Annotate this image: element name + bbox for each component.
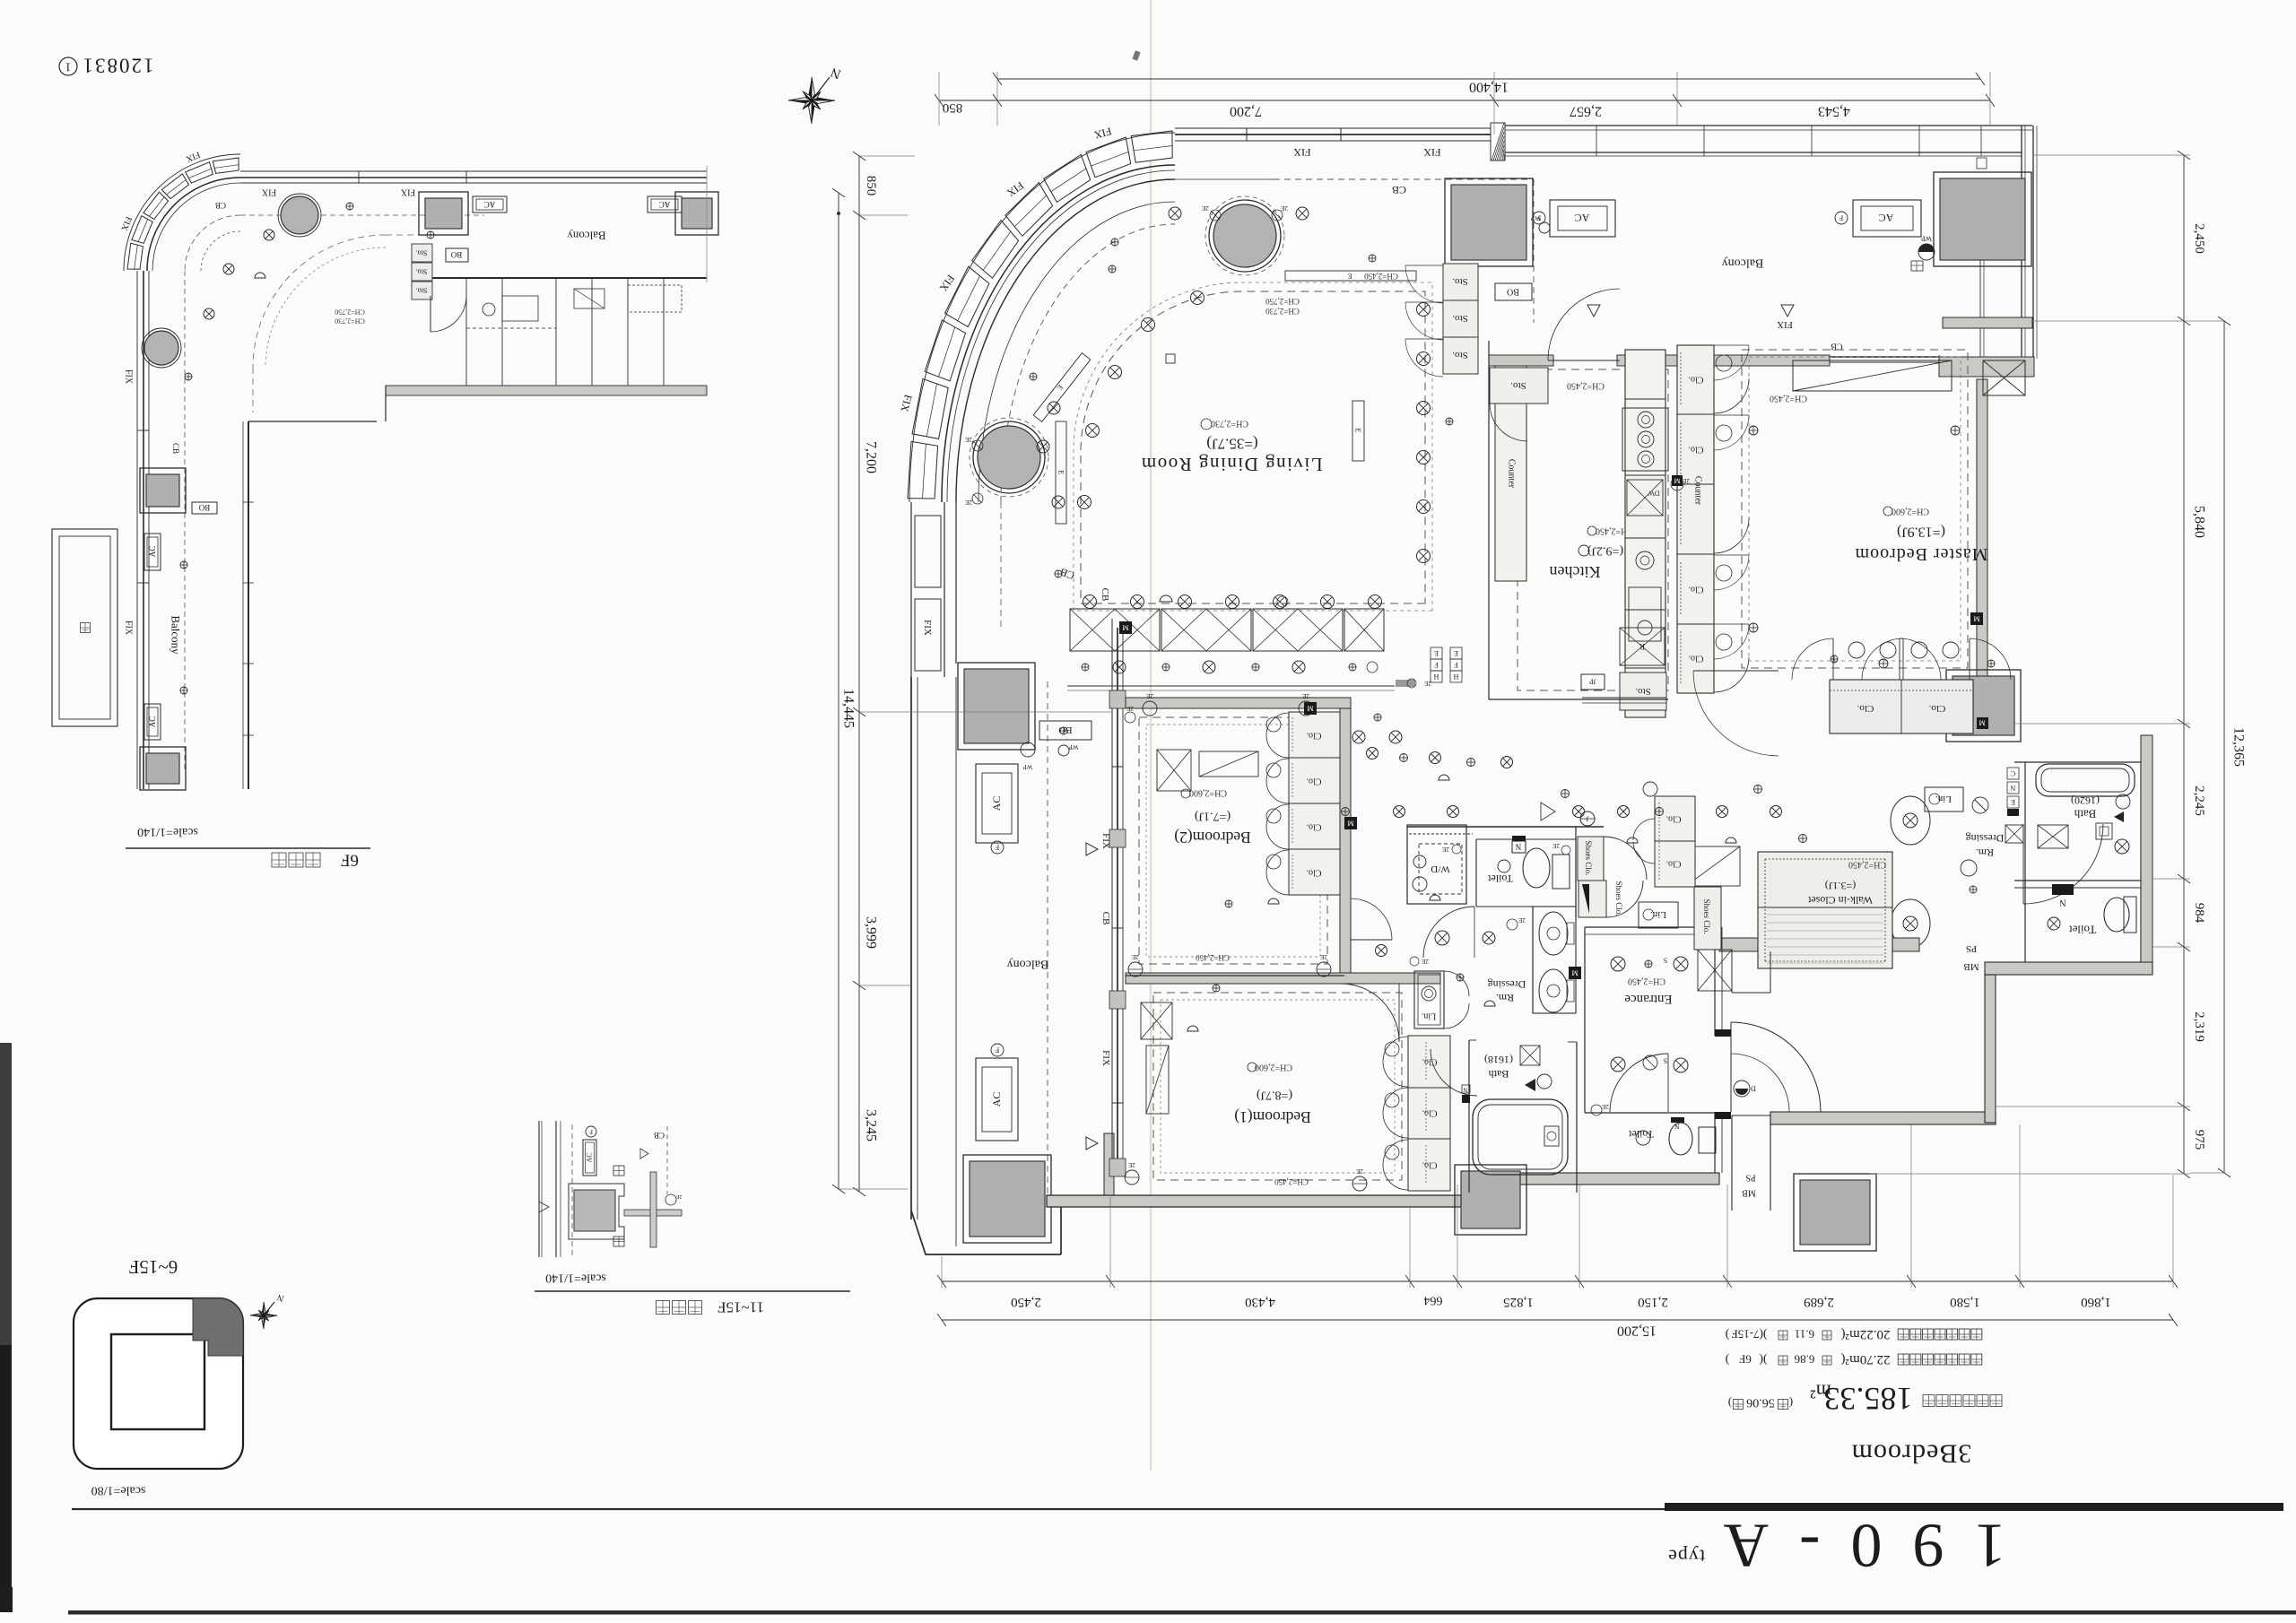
svg-text:scale=1/80: scale=1/80	[91, 1484, 146, 1497]
svg-text:Clo.: Clo.	[1307, 731, 1322, 741]
svg-text:2,689: 2,689	[1804, 1295, 1834, 1309]
svg-text:Bedroom(2): Bedroom(2)	[1174, 829, 1251, 846]
svg-text:F: F	[995, 1046, 999, 1055]
svg-text:J: J	[1586, 815, 1588, 823]
svg-text:AC: AC	[990, 1092, 1003, 1107]
svg-text:scale=1/140: scale=1/140	[137, 825, 198, 838]
svg-text:M: M	[1122, 624, 1128, 632]
svg-text:Sto.: Sto.	[416, 287, 428, 295]
svg-text:Balcony: Balcony	[1722, 256, 1764, 270]
svg-text:2E: 2E	[1683, 477, 1690, 484]
svg-text:Bath: Bath	[1489, 1068, 1509, 1081]
svg-text:BO: BO	[1507, 287, 1519, 297]
svg-text:WP: WP	[1069, 743, 1079, 751]
svg-text:Lin.: Lin.	[1935, 794, 1952, 804]
svg-text:Balcony: Balcony	[567, 230, 606, 243]
svg-text:984: 984	[2192, 903, 2206, 924]
svg-text:2E: 2E	[1126, 705, 1134, 712]
svg-text:AC: AC	[659, 200, 671, 209]
svg-text:20.22m²(: 20.22m²(	[1841, 1327, 1891, 1341]
svg-text:Entrance: Entrance	[1624, 992, 1673, 1006]
svg-text:2E: 2E	[1356, 1167, 1363, 1175]
svg-text:2E: 2E	[675, 1193, 682, 1199]
svg-text:CH=2,450: CH=2,450	[1770, 394, 1807, 404]
svg-text:scale=1/140: scale=1/140	[545, 1271, 606, 1285]
svg-text:m²: m²	[1810, 1381, 1831, 1403]
svg-text:BO: BO	[198, 503, 210, 512]
svg-text:Counter: Counter	[1693, 476, 1703, 506]
svg-text:FIX: FIX	[124, 369, 134, 385]
svg-text:H: H	[1433, 673, 1439, 681]
svg-text:(=35.7J): (=35.7J)	[1206, 436, 1257, 453]
svg-text:Clo.: Clo.	[1689, 654, 1704, 664]
svg-text:3Bedroom: 3Bedroom	[1851, 1439, 1972, 1469]
svg-text:PS: PS	[1745, 1173, 1755, 1183]
svg-text:7-15F: 7-15F	[1731, 1328, 1759, 1341]
svg-text:850: 850	[864, 176, 878, 196]
svg-text:FIX: FIX	[1293, 146, 1311, 159]
svg-text:AC: AC	[586, 1152, 594, 1162]
svg-text:CH=2,450: CH=2,450	[1364, 272, 1398, 281]
svg-text:): )	[1725, 1328, 1729, 1341]
svg-text:Rm.: Rm.	[1496, 992, 1514, 1004]
svg-text:JP: JP	[1589, 678, 1596, 686]
svg-text:CH=2,600: CH=2,600	[1892, 507, 1929, 516]
svg-text:E: E	[1347, 273, 1352, 281]
svg-text:11~15F: 11~15F	[717, 1299, 764, 1316]
svg-text:2E: 2E	[1424, 680, 1431, 687]
svg-text:Clo.: Clo.	[1857, 703, 1874, 714]
svg-text:664: 664	[1424, 1294, 1443, 1307]
svg-text:Sto.: Sto.	[1452, 350, 1468, 360]
svg-text:2E: 2E	[1132, 953, 1139, 960]
svg-text:DW: DW	[1648, 490, 1660, 498]
svg-text:1,860: 1,860	[2081, 1295, 2111, 1309]
svg-text:4,430: 4,430	[1245, 1295, 1275, 1309]
svg-text:2E: 2E	[1602, 1103, 1609, 1110]
svg-text:CB: CB	[171, 443, 180, 454]
svg-text:CH=2,600: CH=2,600	[1255, 1063, 1292, 1072]
svg-text:E: E	[1057, 471, 1065, 475]
svg-text:Sto.: Sto.	[416, 249, 428, 257]
svg-text:Bedroom(1): Bedroom(1)	[1234, 1108, 1311, 1126]
svg-text:Counter: Counter	[1507, 459, 1517, 489]
svg-text:N: N	[2010, 784, 2015, 792]
svg-text:FIX: FIX	[1100, 1050, 1111, 1066]
svg-text:Clo.: Clo.	[1928, 703, 1945, 714]
svg-text:AC: AC	[148, 716, 157, 728]
svg-text:CB: CB	[1100, 588, 1110, 602]
svg-text:CH=2,450: CH=2,450	[1848, 860, 1886, 870]
svg-text:22.70m²(: 22.70m²(	[1841, 1352, 1891, 1367]
svg-text:(=13.9J): (=13.9J)	[1897, 525, 1945, 540]
svg-text:type: type	[1667, 1546, 1705, 1568]
svg-text:CH=2,450: CH=2,450	[1567, 381, 1605, 391]
svg-text:5,840: 5,840	[2192, 506, 2207, 538]
svg-text:190-A: 190-A	[1693, 1511, 2006, 1580]
svg-text:2,319: 2,319	[2192, 1011, 2206, 1042]
svg-text:PS: PS	[1966, 943, 1977, 954]
svg-text:C: C	[2011, 769, 2015, 777]
svg-text:Kitchen: Kitchen	[1550, 563, 1601, 581]
svg-text:2E: 2E	[1281, 204, 1288, 212]
svg-text:4,543: 4,543	[1818, 104, 1850, 119]
svg-text:Toilet: Toilet	[2069, 924, 2097, 937]
svg-text:975: 975	[2192, 1130, 2206, 1150]
svg-text:WP: WP	[1920, 235, 1932, 243]
svg-text:(=7.1J): (=7.1J)	[1195, 810, 1231, 823]
svg-text:Sto.: Sto.	[1452, 276, 1468, 287]
svg-text:AC: AC	[990, 796, 1003, 811]
svg-text:Clo.: Clo.	[1307, 868, 1322, 878]
svg-text:Bath: Bath	[2074, 808, 2096, 821]
svg-text:Dressing: Dressing	[1966, 832, 2005, 845]
svg-text:56.06: 56.06	[1746, 1396, 1775, 1410]
svg-text:Clo.: Clo.	[1666, 814, 1682, 824]
svg-text:2,150: 2,150	[1638, 1295, 1668, 1309]
svg-text:FIX: FIX	[922, 620, 933, 636]
svg-text:(=8.7J): (=8.7J)	[1257, 1089, 1293, 1102]
svg-text:MB: MB	[1963, 961, 1979, 972]
svg-text:2E: 2E	[1320, 953, 1327, 960]
svg-text:7,200: 7,200	[1230, 104, 1262, 119]
svg-text:M: M	[1347, 820, 1353, 828]
svg-text:CH=2,730: CH=2,730	[1211, 419, 1248, 429]
svg-text:N: N	[1463, 1086, 1467, 1093]
svg-text:WP: WP	[1023, 763, 1033, 770]
svg-text:AC: AC	[1879, 212, 1894, 224]
svg-text:2E: 2E	[1202, 204, 1209, 212]
svg-text:F: F	[589, 1128, 593, 1135]
svg-text:(1620): (1620)	[2071, 794, 2100, 807]
svg-text:N: N	[1674, 1123, 1680, 1131]
svg-text:WP: WP	[1531, 214, 1541, 221]
svg-text:CB: CB	[654, 1131, 665, 1140]
svg-text:6.86: 6.86	[1794, 1353, 1814, 1367]
svg-text:E: E	[1434, 649, 1439, 657]
svg-text:2E: 2E	[1442, 846, 1449, 853]
svg-text:CH=2,750: CH=2,750	[335, 308, 365, 317]
svg-text:S: S	[1664, 957, 1667, 965]
svg-text:F: F	[1454, 661, 1458, 669]
svg-text:Lin.: Lin.	[1422, 1011, 1436, 1021]
svg-text:M: M	[1979, 719, 1985, 727]
svg-text:14,445: 14,445	[841, 689, 857, 728]
svg-text:2E: 2E	[1422, 958, 1429, 965]
svg-text:1,580: 1,580	[1950, 1295, 1980, 1309]
svg-text:): )	[1725, 1353, 1729, 1367]
svg-text:BO: BO	[450, 250, 462, 259]
svg-text:AC: AC	[1575, 212, 1590, 224]
svg-text:Shoes Clo.: Shoes Clo.	[1614, 881, 1623, 916]
svg-text:S: S	[1664, 1057, 1667, 1065]
svg-text:CH=2,450: CH=2,450	[1196, 953, 1230, 962]
svg-text:CB: CB	[1392, 184, 1406, 196]
svg-text:2E: 2E	[1552, 842, 1560, 849]
svg-text:R: R	[1639, 642, 1645, 651]
svg-text:7,200: 7,200	[864, 441, 879, 473]
svg-text:CH=2,450: CH=2,450	[1628, 976, 1665, 986]
svg-text:FIX: FIX	[261, 187, 276, 197]
svg-text:2E: 2E	[965, 436, 972, 443]
svg-text:BO: BO	[1058, 725, 1072, 735]
svg-text:F: F	[995, 844, 999, 852]
svg-text:12,365: 12,365	[2231, 727, 2247, 767]
svg-text:2,450: 2,450	[2192, 223, 2206, 254]
svg-text:CB: CB	[1100, 912, 1111, 925]
svg-text:E: E	[1454, 649, 1458, 657]
svg-text:2,245: 2,245	[2192, 785, 2206, 816]
svg-text:Sto.: Sto.	[416, 268, 428, 276]
svg-text:M: M	[1973, 615, 1979, 623]
svg-text:2E: 2E	[1146, 692, 1153, 699]
svg-text:E: E	[1354, 429, 1362, 433]
svg-text:FIX: FIX	[400, 187, 415, 197]
svg-text:15,200: 15,200	[1617, 1324, 1657, 1339]
svg-text:Clo.: Clo.	[1666, 859, 1682, 869]
svg-text:N: N	[2059, 898, 2066, 907]
svg-text:1,825: 1,825	[1503, 1295, 1534, 1309]
svg-text:2E: 2E	[965, 499, 972, 506]
svg-text:3,245: 3,245	[864, 1109, 879, 1141]
svg-text:M: M	[1307, 705, 1313, 713]
svg-text:Clo.: Clo.	[1422, 1160, 1438, 1170]
svg-text:Dressing: Dressing	[1488, 978, 1526, 991]
svg-text:(1618): (1618)	[1484, 1054, 1513, 1066]
svg-text:D: D	[1751, 1085, 1756, 1093]
svg-text:6~15F: 6~15F	[129, 1256, 178, 1278]
svg-text:6F: 6F	[341, 851, 359, 870]
svg-text:M: M	[1571, 969, 1578, 977]
svg-text:Rm.: Rm.	[1976, 846, 1994, 859]
svg-text:Clo.: Clo.	[1689, 375, 1704, 385]
svg-text:F: F	[1434, 661, 1439, 669]
svg-text:Clo.: Clo.	[1689, 445, 1704, 455]
svg-text:Sto.: Sto.	[1635, 686, 1651, 697]
svg-text:F: F	[1839, 214, 1843, 222]
svg-text:2E: 2E	[1128, 1161, 1135, 1168]
svg-text:Clo.: Clo.	[1307, 777, 1322, 786]
svg-text:6.11: 6.11	[1795, 1328, 1814, 1341]
svg-text:E: E	[2011, 798, 2015, 806]
svg-text:2E: 2E	[1302, 692, 1309, 699]
svg-text:3,999: 3,999	[864, 916, 879, 949]
svg-text:(=9.2J): (=9.2J)	[1587, 544, 1624, 558]
svg-text:Master Bedroom: Master Bedroom	[1855, 544, 1988, 564]
svg-text:MB: MB	[1742, 1188, 1756, 1198]
svg-text:2E: 2E	[1518, 916, 1526, 924]
svg-text:CH=2,730: CH=2,730	[1265, 307, 1300, 316]
svg-text:Sto.: Sto.	[1452, 313, 1468, 324]
svg-text:CH=2,730: CH=2,730	[335, 317, 365, 325]
svg-text:CH=2,600: CH=2,600	[1189, 788, 1227, 798]
svg-text:120831: 120831	[82, 55, 154, 77]
svg-text:Shoes Clo.: Shoes Clo.	[1584, 840, 1593, 875]
svg-text:)(: )(	[1759, 1353, 1768, 1367]
svg-text:Shoes Clo.: Shoes Clo.	[1702, 898, 1711, 933]
svg-text:CB: CB	[215, 201, 226, 210]
svg-text:N: N	[1515, 842, 1521, 851]
svg-text:Clo.: Clo.	[1422, 1057, 1438, 1067]
svg-text:): )	[1728, 1397, 1732, 1410]
svg-text:(=3.1J): (=3.1J)	[1825, 880, 1856, 892]
svg-text:Living Dining Room: Living Dining Room	[1140, 454, 1322, 475]
svg-text:AC: AC	[148, 546, 157, 558]
svg-text:AC: AC	[484, 200, 496, 209]
svg-text:Walk-in Closet: Walk-in Closet	[1807, 894, 1873, 907]
svg-text:185.33: 185.33	[1824, 1381, 1913, 1417]
svg-text:850: 850	[943, 100, 963, 115]
svg-text:CH=2,450: CH=2,450	[1274, 1177, 1309, 1186]
svg-text:CH=2,750: CH=2,750	[1265, 297, 1300, 306]
svg-text:H: H	[1453, 673, 1458, 681]
svg-text:FIX: FIX	[124, 621, 134, 636]
svg-text:Clo.: Clo.	[1689, 585, 1704, 595]
svg-text:Sto.: Sto.	[1510, 380, 1526, 391]
svg-text:Balcony: Balcony	[170, 615, 183, 655]
svg-text:2,657: 2,657	[1570, 104, 1602, 119]
svg-text:FIX: FIX	[1423, 146, 1441, 159]
svg-text:Balcony: Balcony	[1007, 958, 1049, 971]
svg-text:2,450: 2,450	[1011, 1295, 1041, 1309]
svg-text:14,400: 14,400	[1469, 80, 1509, 95]
svg-text:Clo.: Clo.	[1307, 822, 1322, 832]
svg-text:Toilet: Toilet	[1487, 872, 1512, 885]
svg-text:Clo.: Clo.	[1422, 1108, 1438, 1118]
svg-text:1: 1	[65, 60, 72, 74]
svg-text:FIX: FIX	[1777, 319, 1793, 330]
svg-text:(: (	[1789, 1397, 1793, 1410]
svg-text:W/D: W/D	[1431, 864, 1449, 874]
svg-text:6F: 6F	[1739, 1353, 1752, 1367]
svg-text:FIX: FIX	[1100, 833, 1111, 849]
